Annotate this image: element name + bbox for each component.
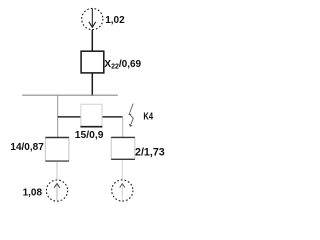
wire cable right segment: [102, 116, 123, 118]
svg-text:15/0,9: 15/0,9: [75, 130, 104, 141]
busbar: [22, 94, 118, 96]
svg-text:14/0,87: 14/0,87: [10, 142, 44, 153]
feeder arrow (down): [89, 9, 96, 28]
svg-text:1,02: 1,02: [105, 15, 125, 26]
motor M1 arrow (up): [54, 184, 60, 201]
svg-text:2/1,73: 2/1,73: [135, 147, 165, 159]
motor M2 arrow (up): [120, 184, 125, 201]
transformer T1 (square): [81, 51, 104, 73]
wire right load to motor M2: [121, 160, 123, 180]
label overline (box bottom, black): [80, 126, 102, 128]
load box L1 (left): [45, 138, 69, 162]
network feeder Q1 (dashed circle): [82, 8, 103, 29]
motor M2 (dashed circle): [112, 180, 133, 201]
load box L2 (right): [111, 137, 135, 159]
wire cable left segment: [58, 116, 81, 118]
wire feeder to transformer: [91, 30, 93, 51]
svg-text:X22/0,69: X22/0,69: [104, 59, 141, 71]
cable result box (gray): [81, 104, 102, 126]
motor M1 (dashed circle): [46, 180, 67, 201]
svg-text:1,08: 1,08: [23, 188, 43, 199]
wire down to right load: [122, 117, 124, 137]
wire busbar down to left load (node drop): [57, 95, 59, 137]
fault lightning K4: [128, 104, 133, 127]
svg-text:K4: K4: [143, 110, 153, 121]
wire left load to motor M1: [56, 162, 58, 180]
wire transformer to busbar: [91, 73, 93, 96]
